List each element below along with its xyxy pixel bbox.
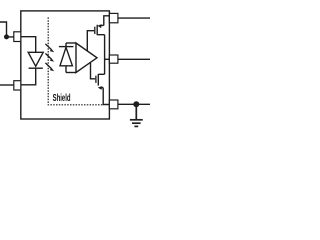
wire PMOS drain <box>98 34 105 36</box>
wire output rail <box>104 35 106 75</box>
wire NMOS drain <box>98 73 104 75</box>
svg-text:Shield: Shield <box>53 92 71 104</box>
light arrow 2 <box>45 53 54 61</box>
pin Vdd right box <box>109 13 118 22</box>
wire gate drive upper <box>87 31 94 51</box>
wire cathode external <box>0 84 14 86</box>
wire output external <box>118 58 150 60</box>
shield dashed boundary <box>48 17 103 104</box>
light arrow 1 <box>45 44 54 52</box>
pin cathode left box <box>14 81 21 90</box>
wire gate drive lower <box>91 63 96 79</box>
LED D1 <box>28 52 43 68</box>
light arrow 3 <box>45 63 54 71</box>
pin ground right box <box>109 100 118 109</box>
wire ground external <box>118 103 150 105</box>
transistor Q2 NMOS <box>96 74 103 90</box>
ground <box>130 104 143 126</box>
transistor Q1 PMOS <box>95 24 104 35</box>
wire anode to LED <box>21 37 36 53</box>
IC package outline <box>21 11 110 119</box>
wire NMOS source to ground pin <box>103 88 109 105</box>
wire photodiode bottom rail <box>66 72 76 74</box>
wire input top-left external <box>0 22 14 37</box>
junction dot ground node <box>133 101 139 107</box>
pin anode left box <box>14 32 21 42</box>
wire LED cathode return <box>21 68 36 85</box>
photodiode PD1 <box>59 43 74 73</box>
wire Vdd external <box>118 17 150 19</box>
pin output right box <box>109 55 118 63</box>
op-amp U1 <box>76 43 97 73</box>
wire output tap to pin <box>105 58 110 60</box>
wire Vdd rail <box>104 16 110 26</box>
junction dot anode node <box>4 34 9 39</box>
wire photodiode top rail <box>66 42 76 44</box>
